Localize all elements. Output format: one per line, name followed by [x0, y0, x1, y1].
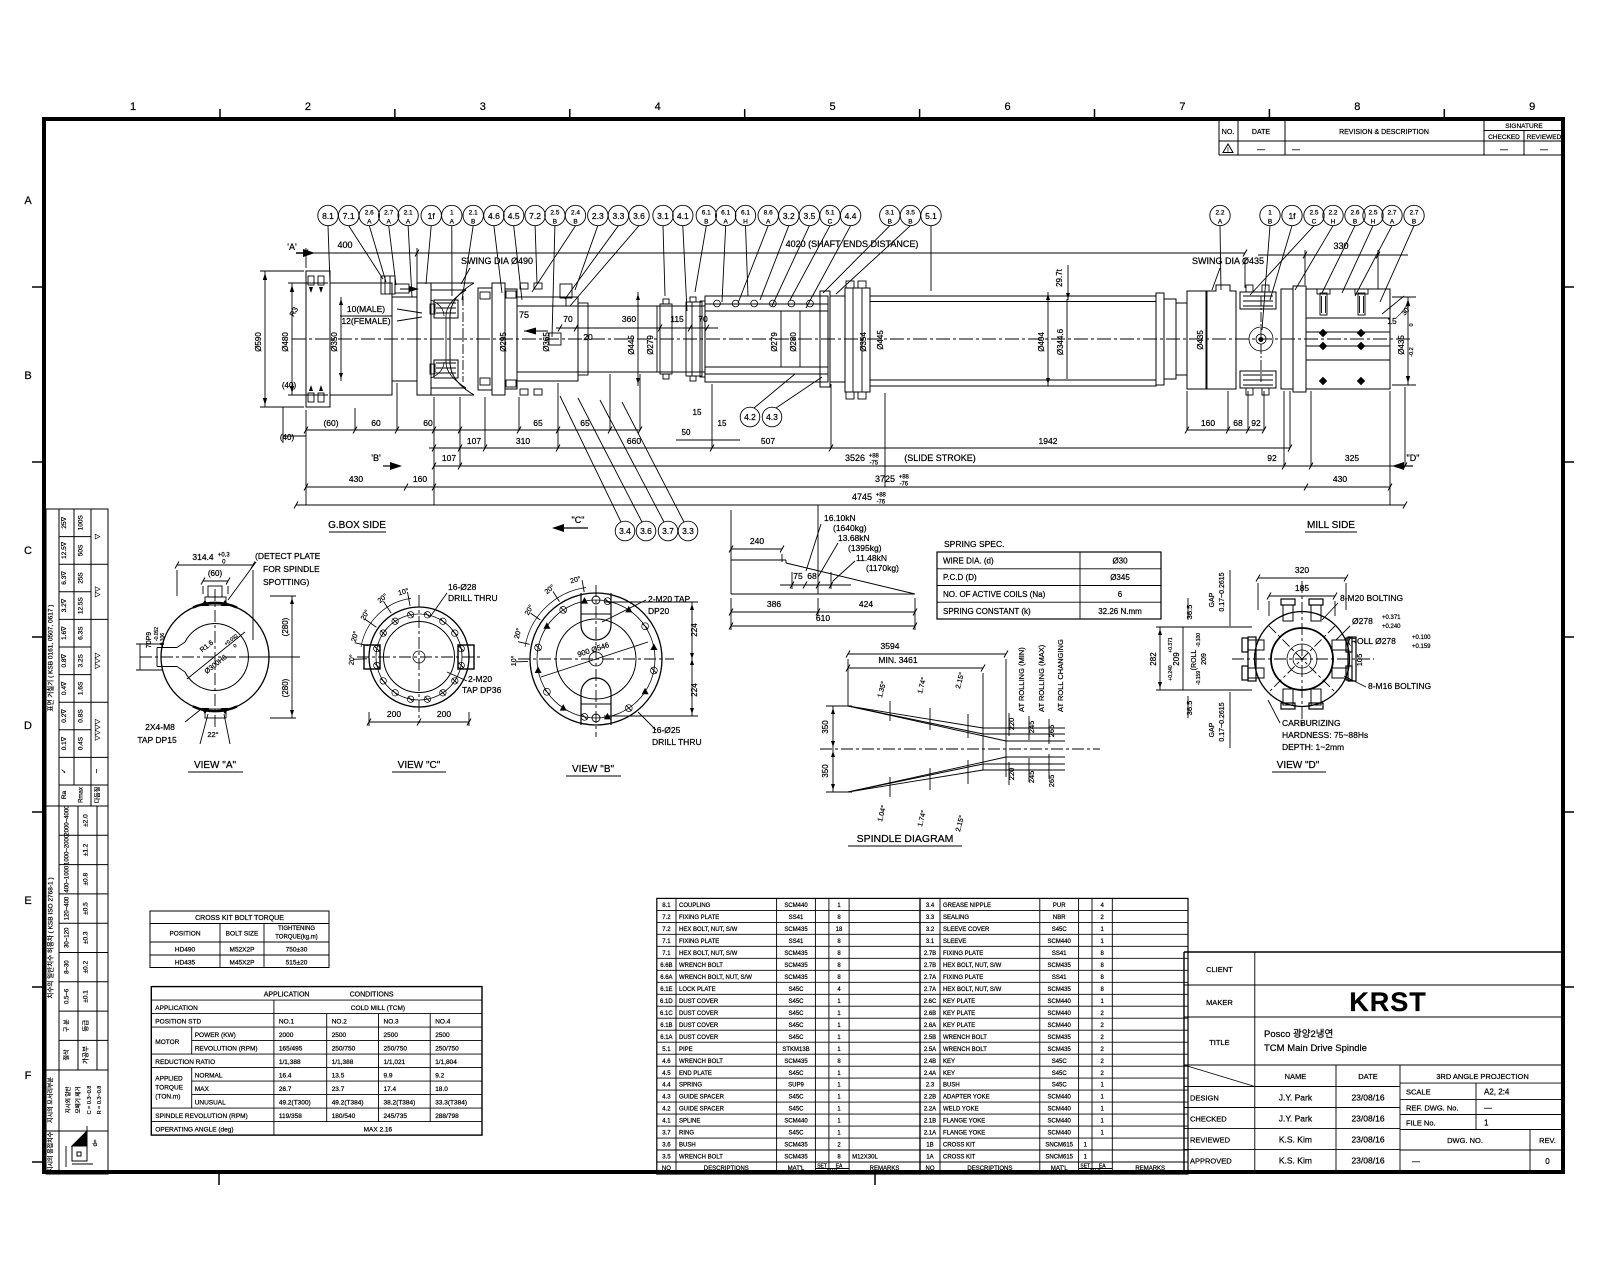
svg-text:SCM440: SCM440 — [1048, 1095, 1072, 1101]
svg-text:END PLATE: END PLATE — [679, 1071, 712, 1077]
svg-text:TITLE: TITLE — [1209, 1038, 1229, 1047]
svg-text:POSITION STD: POSITION STD — [155, 1019, 201, 1026]
svg-text:APPLIED: APPLIED — [155, 1076, 183, 1083]
svg-text:WELD YOKE: WELD YOKE — [943, 1107, 979, 1113]
svg-text:모떼기 제거: 모떼기 제거 — [74, 1087, 82, 1114]
svg-text:610: 610 — [816, 613, 830, 623]
svg-text:60: 60 — [423, 418, 433, 428]
svg-text:1: 1 — [1101, 927, 1105, 933]
svg-text:320: 320 — [1295, 565, 1309, 575]
svg-text:2.7B: 2.7B — [924, 963, 936, 969]
svg-text:HEX BOLT, NUT, S/W: HEX BOLT, NUT, S/W — [679, 927, 738, 933]
svg-text:1: 1 — [837, 1011, 841, 1017]
svg-text:+0.032: +0.032 — [223, 633, 239, 647]
svg-text:R = 0.3~0.8: R = 0.3~0.8 — [97, 1086, 103, 1115]
svg-text:17.4: 17.4 — [384, 1086, 397, 1093]
svg-text:K.S. Kim: K.S. Kim — [1279, 1134, 1312, 1144]
svg-text:±0.8: ±0.8 — [83, 873, 90, 886]
svg-text:119/358: 119/358 — [279, 1113, 302, 1120]
svg-text:2500: 2500 — [332, 1032, 347, 1039]
svg-text:-0.2: -0.2 — [1409, 347, 1415, 356]
svg-text:Ø435: Ø435 — [1397, 335, 1406, 355]
svg-text:NO.3: NO.3 — [384, 1019, 400, 1026]
svg-text:430: 430 — [349, 474, 363, 484]
svg-text:515±20: 515±20 — [286, 960, 308, 967]
svg-text:REF. DWG. No.: REF. DWG. No. — [1406, 1104, 1459, 1113]
svg-text:Posco 광양2냉연: Posco 광양2냉연 — [1264, 1028, 1333, 1040]
svg-text:3.7: 3.7 — [662, 1131, 671, 1137]
svg-text:지시외 용접치수: 지시외 용접치수 — [47, 1131, 55, 1172]
svg-text:288/798: 288/798 — [435, 1113, 459, 1120]
svg-text:0: 0 — [1545, 1157, 1550, 1166]
svg-text:KRST: KRST — [1349, 987, 1427, 1017]
svg-text:S45C: S45C — [788, 1023, 804, 1029]
svg-text:2-M20: 2-M20 — [468, 674, 492, 684]
svg-text:S45C: S45C — [788, 999, 804, 1005]
svg-text:MAX 2.16: MAX 2.16 — [364, 1127, 393, 1134]
svg-text:KEY PLATE: KEY PLATE — [943, 999, 975, 1005]
svg-text:GUIDE SPACER: GUIDE SPACER — [679, 1107, 725, 1113]
svg-text:3.2: 3.2 — [926, 927, 935, 933]
svg-text:2: 2 — [1101, 1035, 1105, 1041]
svg-text:2: 2 — [1101, 1059, 1105, 1065]
svg-text:220: 220 — [1007, 768, 1016, 781]
svg-text:11.48kN: 11.48kN — [856, 553, 887, 563]
svg-text:265: 265 — [1047, 725, 1056, 738]
svg-text:49.2(T384): 49.2(T384) — [332, 1100, 364, 1107]
svg-text:1: 1 — [837, 1119, 841, 1125]
svg-text:1: 1 — [837, 1083, 841, 1089]
svg-text:C: C — [24, 545, 32, 557]
svg-text:160: 160 — [413, 474, 427, 484]
svg-text:▽▽: ▽▽ — [95, 586, 102, 597]
svg-text:CHECKED: CHECKED — [1190, 1115, 1227, 1124]
svg-text:2.1: 2.1 — [469, 210, 478, 217]
svg-text:1: 1 — [1101, 999, 1105, 1005]
svg-text:HARDNESS: 75~88Hs: HARDNESS: 75~88Hs — [1282, 730, 1368, 740]
svg-text:SCM440: SCM440 — [1048, 1011, 1072, 1017]
svg-text:5.1: 5.1 — [925, 211, 937, 221]
svg-text:4.6: 4.6 — [662, 1059, 671, 1065]
svg-text:3.6: 3.6 — [662, 1143, 671, 1149]
svg-text:SS41: SS41 — [1052, 975, 1067, 981]
svg-text:1.74°: 1.74° — [916, 676, 928, 694]
svg-text:A2, 2:4: A2, 2:4 — [1484, 1088, 1510, 1097]
svg-text:NAME: NAME — [1285, 1072, 1307, 1081]
svg-text:8.6: 8.6 — [764, 210, 773, 217]
svg-text:1: 1 — [837, 1071, 841, 1077]
svg-text:F: F — [25, 1070, 32, 1082]
svg-text:20°: 20° — [359, 608, 371, 621]
svg-text:E: E — [24, 895, 31, 907]
svg-text:3.2S: 3.2S — [78, 653, 85, 667]
svg-text:TORQUE(kg.m): TORQUE(kg.m) — [275, 935, 318, 941]
svg-text:400: 400 — [337, 240, 352, 250]
svg-text:치수의 일반치수 허용차 ( KSB ISO 2768-1: 치수의 일반치수 허용차 ( KSB ISO 2768-1 ) — [46, 877, 55, 998]
svg-text:314.4: 314.4 — [192, 552, 214, 562]
svg-text:HEX BOLT, NUT, S/W: HEX BOLT, NUT, S/W — [943, 963, 1002, 969]
svg-text:SPINDLE REVOLUTION (RPM): SPINDLE REVOLUTION (RPM) — [155, 1113, 247, 1120]
svg-text:TCM Main Drive Spindle: TCM Main Drive Spindle — [1264, 1043, 1367, 1054]
svg-text:S45C: S45C — [1052, 1071, 1068, 1077]
svg-text:Ø365: Ø365 — [542, 332, 551, 352]
svg-text:200: 200 — [437, 709, 451, 719]
svg-text:7.1: 7.1 — [343, 211, 355, 221]
svg-text:75: 75 — [793, 571, 803, 581]
svg-text:3.1: 3.1 — [885, 210, 894, 217]
svg-text:3.2: 3.2 — [783, 211, 795, 221]
svg-text:(TON.m): (TON.m) — [155, 1094, 180, 1101]
svg-text:TORQUE: TORQUE — [155, 1085, 183, 1092]
svg-text:Ø345: Ø345 — [1110, 573, 1130, 582]
svg-text:HD435: HD435 — [175, 960, 196, 967]
svg-text:BUSH: BUSH — [679, 1143, 696, 1149]
svg-text:2: 2 — [1101, 1071, 1105, 1077]
svg-text:SIGNATURE: SIGNATURE — [1505, 123, 1543, 130]
svg-text:13.5: 13.5 — [332, 1073, 345, 1080]
svg-text:NO.1: NO.1 — [279, 1019, 295, 1026]
svg-text:S45C: S45C — [1052, 927, 1068, 933]
svg-text:NBR: NBR — [1053, 915, 1066, 921]
svg-text:0.1∇: 0.1∇ — [60, 736, 68, 750]
svg-text:—: — — [1500, 145, 1508, 154]
svg-text:REDUCTION RATIO: REDUCTION RATIO — [155, 1059, 215, 1066]
svg-text:±0.5: ±0.5 — [83, 902, 90, 915]
svg-text:VIEW "A": VIEW "A" — [194, 760, 237, 771]
svg-text:Ø280: Ø280 — [789, 332, 798, 352]
svg-text:3.5: 3.5 — [906, 210, 915, 217]
svg-text:GAP: GAP — [1209, 722, 1216, 737]
svg-text:SCM440: SCM440 — [1048, 1023, 1072, 1029]
svg-text:2.7A: 2.7A — [924, 987, 936, 993]
svg-text:NO. OF ACTIVE COILS (Na): NO. OF ACTIVE COILS (Na) — [943, 590, 1046, 599]
svg-text:250/750: 250/750 — [332, 1046, 356, 1053]
svg-text:310: 310 — [516, 436, 530, 446]
svg-text:6.1D: 6.1D — [660, 999, 673, 1005]
svg-text:424: 424 — [859, 599, 873, 609]
svg-text:COUPLING: COUPLING — [679, 903, 711, 909]
svg-text:SCM435: SCM435 — [784, 951, 808, 957]
svg-text:-76: -76 — [899, 482, 908, 488]
svg-text:30~120: 30~120 — [65, 927, 71, 948]
svg-text:1: 1 — [1101, 1083, 1105, 1089]
svg-text:20°: 20° — [348, 654, 357, 665]
svg-text:0.17~0.2615: 0.17~0.2615 — [1219, 572, 1226, 611]
svg-text:5.1: 5.1 — [662, 1047, 671, 1053]
svg-text:CROSS KIT: CROSS KIT — [943, 1155, 976, 1161]
svg-text:Ø278: Ø278 — [1352, 616, 1373, 626]
svg-text:SPRING CONSTANT (k): SPRING CONSTANT (k) — [943, 607, 1031, 616]
svg-text:APPROVED: APPROVED — [1190, 1156, 1232, 1165]
svg-text:0: 0 — [232, 643, 238, 650]
svg-text:70: 70 — [698, 314, 708, 324]
svg-text:SCM435: SCM435 — [784, 963, 808, 969]
svg-text:CLIENT: CLIENT — [1206, 965, 1233, 974]
svg-text:9.2: 9.2 — [435, 1073, 444, 1080]
svg-text:1: 1 — [837, 903, 841, 909]
svg-text:25S: 25S — [78, 572, 85, 584]
svg-text:B: B — [704, 219, 708, 226]
svg-text:Ø435: Ø435 — [1196, 330, 1205, 350]
svg-text:7: 7 — [1179, 101, 1185, 113]
svg-text:6: 6 — [1118, 590, 1123, 599]
svg-text:DUST COVER: DUST COVER — [679, 999, 719, 1005]
svg-text:6: 6 — [1004, 101, 1010, 113]
svg-text:!: ! — [1227, 148, 1229, 154]
svg-text:350: 350 — [821, 720, 830, 734]
svg-text:360: 360 — [622, 314, 636, 324]
svg-text:REVISION & DESCRIPTION: REVISION & DESCRIPTION — [1339, 129, 1429, 136]
svg-text:0.8∇: 0.8∇ — [60, 653, 68, 667]
svg-text:UNUSUAL: UNUSUAL — [195, 1100, 226, 1107]
svg-text:-76: -76 — [876, 500, 885, 506]
svg-text:50S: 50S — [78, 544, 85, 556]
svg-text:2.7B: 2.7B — [924, 951, 936, 957]
svg-text:2.3: 2.3 — [926, 1083, 935, 1089]
svg-text:WRENCH BOLT: WRENCH BOLT — [943, 1047, 987, 1053]
svg-text:7.2: 7.2 — [529, 211, 541, 221]
svg-text:+88: +88 — [876, 493, 887, 499]
svg-text:50: 50 — [682, 428, 691, 437]
svg-text:250/750: 250/750 — [435, 1046, 459, 1053]
svg-text:5: 5 — [830, 101, 836, 113]
svg-text:SCALE: SCALE — [1406, 1088, 1431, 1097]
svg-text:TAP DP15: TAP DP15 — [137, 735, 177, 745]
svg-text:POSITION: POSITION — [169, 931, 200, 938]
svg-text:2: 2 — [1101, 915, 1105, 921]
svg-text:20°: 20° — [376, 592, 389, 605]
svg-text:+0.3: +0.3 — [218, 553, 231, 559]
svg-text:1: 1 — [837, 1023, 841, 1029]
svg-text:DWG. NO.: DWG. NO. — [1447, 1136, 1483, 1145]
svg-text:2: 2 — [305, 101, 311, 113]
svg-text:DEPTH: 1~2mm: DEPTH: 1~2mm — [1282, 742, 1344, 752]
svg-text:3.1: 3.1 — [926, 939, 935, 945]
svg-text:SEALING: SEALING — [943, 915, 969, 921]
svg-text:B: B — [471, 219, 475, 226]
svg-text:1: 1 — [1084, 1155, 1088, 1161]
svg-text:165/495: 165/495 — [279, 1046, 303, 1053]
svg-text:2.1B: 2.1B — [924, 1119, 936, 1125]
svg-text:25∇: 25∇ — [60, 516, 68, 528]
svg-text:지시외 모서리부분: 지시외 모서리부분 — [47, 1077, 55, 1123]
svg-text:6.3S: 6.3S — [78, 626, 85, 640]
svg-text:HEX BOLT, NUT, S/W: HEX BOLT, NUT, S/W — [679, 951, 738, 957]
svg-text:(280): (280) — [281, 617, 290, 636]
svg-text:SCM440: SCM440 — [1048, 1119, 1072, 1125]
svg-text:SCM435: SCM435 — [784, 975, 808, 981]
svg-text:d=: d= — [93, 1139, 99, 1146]
svg-text:400~1000: 400~1000 — [65, 865, 71, 893]
svg-text:가공부: 가공부 — [81, 1046, 90, 1064]
svg-text:26.7: 26.7 — [279, 1086, 292, 1093]
svg-text:2: 2 — [1101, 1011, 1105, 1017]
svg-text:SWING DIA Ø435: SWING DIA Ø435 — [1192, 256, 1264, 266]
svg-text:8: 8 — [1101, 987, 1105, 993]
svg-text:+0.240: +0.240 — [1382, 624, 1401, 630]
svg-text:2.6: 2.6 — [365, 210, 374, 217]
svg-text:FIXING PLATE: FIXING PLATE — [679, 939, 719, 945]
svg-text:220: 220 — [1007, 718, 1016, 731]
svg-text:20°: 20° — [523, 603, 535, 616]
svg-text:D: D — [24, 720, 32, 732]
svg-text:DP20: DP20 — [648, 606, 670, 616]
svg-text:107: 107 — [442, 453, 456, 463]
svg-text:OPERATING ANGLE (deg): OPERATING ANGLE (deg) — [155, 1127, 233, 1134]
svg-text:M45X2P: M45X2P — [230, 960, 255, 967]
svg-text:3.6: 3.6 — [633, 211, 645, 221]
svg-text:FIXING PLATE: FIXING PLATE — [943, 951, 983, 957]
svg-text:Ø279: Ø279 — [646, 335, 655, 355]
svg-text:±0.3: ±0.3 — [83, 931, 90, 944]
svg-text:+0.371: +0.371 — [1382, 615, 1401, 621]
svg-text:1/1,388: 1/1,388 — [279, 1059, 301, 1066]
svg-text:92: 92 — [1267, 453, 1277, 463]
svg-text:8: 8 — [837, 975, 841, 981]
svg-text:R3: R3 — [288, 305, 301, 318]
svg-text:3RD ANGLE PROJECTION: 3RD ANGLE PROJECTION — [1436, 1072, 1529, 1081]
svg-text:S45C: S45C — [788, 1071, 804, 1077]
svg-text:23/08/16: 23/08/16 — [1351, 1093, 1384, 1103]
svg-text:1: 1 — [450, 210, 454, 217]
svg-text:1: 1 — [1101, 1095, 1105, 1101]
svg-text:4.5: 4.5 — [662, 1071, 671, 1077]
svg-text:8-M16 BOLTING: 8-M16 BOLTING — [1368, 681, 1431, 691]
svg-text:GREASE NIPPLE: GREASE NIPPLE — [943, 903, 991, 909]
svg-text:Ø350: Ø350 — [330, 332, 339, 352]
svg-text:3594: 3594 — [881, 641, 900, 651]
svg-text:B: B — [908, 219, 912, 226]
svg-text:S45C: S45C — [788, 1131, 804, 1137]
svg-text:8: 8 — [837, 1155, 841, 1161]
svg-text:(ROLL Ø278: (ROLL Ø278 — [1348, 636, 1396, 646]
svg-text:1A: 1A — [926, 1155, 933, 1161]
svg-text:2.6C: 2.6C — [924, 999, 937, 1005]
svg-text:6.1E: 6.1E — [660, 987, 672, 993]
svg-text:B: B — [888, 219, 892, 226]
svg-text:2.3: 2.3 — [592, 211, 604, 221]
svg-text:CONDITIONS: CONDITIONS — [350, 992, 394, 999]
svg-text:0.4∇: 0.4∇ — [60, 681, 68, 695]
svg-text:절삭: 절삭 — [63, 1049, 71, 1061]
svg-text:(40): (40) — [282, 381, 297, 390]
svg-text:B: B — [553, 219, 557, 226]
svg-text:16-Ø28: 16-Ø28 — [448, 582, 477, 592]
svg-text:1.6S: 1.6S — [78, 681, 85, 695]
svg-text:NORMAL: NORMAL — [195, 1073, 223, 1080]
svg-text:3526: 3526 — [845, 453, 865, 463]
svg-text:MILL SIDE: MILL SIDE — [1307, 520, 1355, 531]
svg-text:B: B — [1268, 219, 1272, 226]
svg-text:SCM440: SCM440 — [1048, 1107, 1072, 1113]
svg-text:A: A — [450, 219, 455, 226]
svg-text:Ø445: Ø445 — [627, 335, 636, 355]
svg-text:DUST COVER: DUST COVER — [679, 1023, 719, 1029]
svg-text:(40): (40) — [280, 433, 295, 442]
svg-text:CROSS KIT BOLT TORQUE: CROSS KIT BOLT TORQUE — [195, 915, 284, 922]
svg-text:1/1,388: 1/1,388 — [332, 1059, 354, 1066]
svg-text:430: 430 — [1333, 474, 1347, 484]
svg-text:A: A — [24, 195, 32, 207]
svg-text:16.4: 16.4 — [279, 1073, 292, 1080]
svg-text:A: A — [1390, 219, 1395, 226]
svg-text:36.5: 36.5 — [1185, 605, 1194, 620]
svg-text:±2.0: ±2.0 — [83, 814, 90, 827]
svg-text:23/08/16: 23/08/16 — [1351, 1134, 1384, 1144]
svg-text:32.26 N.mm: 32.26 N.mm — [1098, 607, 1142, 616]
svg-text:AT ROLLING (MAX): AT ROLLING (MAX) — [1037, 644, 1046, 712]
svg-text:REVIEWED: REVIEWED — [1190, 1135, 1231, 1144]
svg-text:SCM440: SCM440 — [1048, 1131, 1072, 1137]
svg-text:60: 60 — [371, 418, 381, 428]
svg-text:KEY: KEY — [943, 1071, 955, 1077]
svg-text:R1.6: R1.6 — [199, 639, 215, 654]
svg-text:7.2: 7.2 — [662, 915, 671, 921]
svg-text:SPINDLE DIAGRAM: SPINDLE DIAGRAM — [857, 833, 954, 845]
svg-text:TAP DP36: TAP DP36 — [462, 685, 502, 695]
svg-text:1: 1 — [837, 1131, 841, 1137]
svg-text:REV.: REV. — [1539, 1136, 1556, 1145]
svg-text:2.5: 2.5 — [1309, 210, 1318, 217]
svg-text:1: 1 — [837, 1107, 841, 1113]
svg-text:180/540: 180/540 — [332, 1113, 356, 1120]
svg-text:0.4S: 0.4S — [78, 736, 85, 750]
svg-text:20°: 20° — [513, 627, 524, 639]
svg-text:SCM435: SCM435 — [1048, 1047, 1072, 1053]
svg-text:(SLIDE STROKE): (SLIDE STROKE) — [904, 453, 976, 463]
svg-text:224: 224 — [690, 683, 699, 697]
svg-text:GUIDE SPACER: GUIDE SPACER — [679, 1095, 725, 1101]
svg-text:SUP9: SUP9 — [788, 1083, 804, 1089]
svg-text:4.6: 4.6 — [488, 211, 500, 221]
svg-text:Ø590: Ø590 — [254, 332, 263, 352]
svg-text:AT ROLL CHANGING: AT ROLL CHANGING — [1056, 639, 1065, 712]
svg-text:2.5B: 2.5B — [924, 1035, 936, 1041]
svg-text:K.S. Kim: K.S. Kim — [1279, 1155, 1312, 1165]
svg-text:+88: +88 — [899, 475, 910, 481]
svg-text:16-Ø25: 16-Ø25 — [652, 725, 681, 735]
svg-text:DATE: DATE — [1252, 129, 1270, 136]
svg-text:BUSH: BUSH — [943, 1083, 960, 1089]
svg-text:20°: 20° — [569, 575, 581, 586]
svg-text:2.2B: 2.2B — [924, 1095, 936, 1101]
svg-text:36.5: 36.5 — [1185, 701, 1194, 716]
svg-text:Ø279: Ø279 — [770, 332, 779, 352]
svg-text:2.4: 2.4 — [571, 210, 580, 217]
svg-text:Ø480: Ø480 — [281, 332, 290, 352]
svg-text:1942: 1942 — [1039, 436, 1058, 446]
svg-text:4.4: 4.4 — [662, 1083, 671, 1089]
svg-text:KEY PLATE: KEY PLATE — [943, 1023, 975, 1029]
svg-text:SS41: SS41 — [789, 939, 804, 945]
svg-text:7.1: 7.1 — [662, 951, 671, 957]
svg-text:SCM435: SCM435 — [784, 927, 808, 933]
svg-text:B: B — [1353, 219, 1357, 226]
svg-text:209: 209 — [1201, 653, 1208, 665]
svg-text:POWER (KW): POWER (KW) — [195, 1032, 236, 1039]
svg-text:2.5: 2.5 — [550, 210, 559, 217]
svg-text:3.1: 3.1 — [657, 211, 669, 221]
svg-text:3725: 3725 — [875, 474, 895, 484]
svg-text:B: B — [24, 370, 31, 382]
svg-text:250/750: 250/750 — [384, 1046, 408, 1053]
svg-text:SCM435: SCM435 — [784, 1143, 808, 1149]
svg-text:100S: 100S — [78, 515, 85, 531]
svg-text:DESIGN: DESIGN — [1190, 1094, 1219, 1103]
svg-text:1: 1 — [837, 999, 841, 1005]
svg-text:(1170kg): (1170kg) — [866, 563, 899, 573]
svg-text:20: 20 — [583, 332, 593, 342]
